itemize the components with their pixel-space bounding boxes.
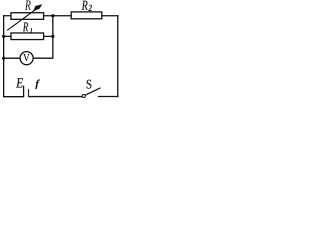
- label R2 subscript 2: [89, 5, 92, 11]
- resistor R (rheostat box): [11, 13, 44, 20]
- label R1 subscript 1: [30, 28, 32, 32]
- wire: left frame vertical: [3, 15, 5, 97]
- wire: R1 branch y=36.3: [4, 35, 53, 37]
- label R1 letter R: [23, 22, 28, 31]
- rheostat arrow shaft: [7, 8, 37, 30]
- switch S contact circle: [82, 94, 85, 97]
- wire: voltmeter branch y=58.2: [4, 57, 53, 59]
- resistor R2 box: [71, 12, 102, 19]
- battery E long plate: [23, 86, 25, 98]
- junction dot R1 left frame: [2, 35, 5, 38]
- wire: bottom wire left of battery: [3, 96, 24, 98]
- wire: bottom wire battery to switch: [29, 96, 83, 98]
- switch S arm: [85, 88, 100, 95]
- junction dot voltmeter left frame: [2, 57, 5, 60]
- voltmeter V1 circle: [20, 52, 33, 65]
- junction dot R1 right: [51, 35, 54, 38]
- resistor R1 box: [11, 33, 44, 40]
- wire: bottom wire right of switch: [98, 96, 118, 98]
- label r (internal resistance): [35, 80, 40, 89]
- voltmeter letter V: [23, 54, 29, 61]
- wire: top main wire y=15.65: [3, 15, 118, 17]
- label R: [25, 0, 31, 9]
- wire: right frame vertical: [117, 15, 119, 97]
- wire: junction vertical x=52.85: [52, 16, 54, 59]
- rheostat arrowhead: [33, 4, 42, 11]
- battery E short plate: [28, 89, 30, 97]
- label R2 letter R: [82, 1, 88, 10]
- junction dot top: [51, 14, 54, 17]
- label E: [16, 78, 23, 87]
- label S: [87, 80, 92, 89]
